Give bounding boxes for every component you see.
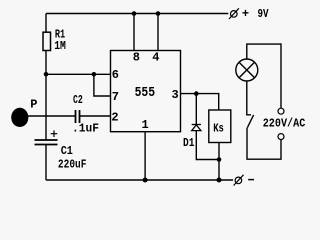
relay Ks box (209, 110, 231, 143)
svg-text:.1uF: .1uF (72, 122, 99, 136)
svg-text:220V/AC: 220V/AC (263, 116, 306, 130)
node dot pin1 rail (143, 178, 148, 183)
svg-text:1: 1 (142, 118, 149, 132)
svg-text:8: 8 (133, 50, 140, 64)
node dot Ks rail (217, 178, 222, 183)
node dot pin4 rail (156, 11, 161, 16)
wire left rail middle (45, 51, 47, 141)
svg-text:555: 555 (135, 86, 156, 101)
svg-text:7: 7 (112, 90, 119, 104)
AC source terminal bottom (278, 134, 284, 140)
svg-text:D1: D1 (183, 136, 194, 150)
C1 plus sign (51, 130, 58, 137)
wire left rail lower (45, 145, 47, 181)
wire D1 top (195, 94, 197, 125)
lamp top wire (247, 44, 281, 108)
lamp EL1 (236, 59, 258, 81)
wire D1 bottom (196, 131, 218, 160)
minus sign (248, 179, 254, 181)
wire pin3 (181, 94, 219, 110)
svg-text:1M: 1M (54, 39, 66, 53)
wire bottom rail (46, 179, 233, 181)
diode D1 zener (192, 125, 201, 131)
svg-text:9V: 9V (258, 7, 270, 21)
wire lamp to switch (247, 81, 251, 115)
node dot pin3 (194, 91, 199, 96)
wire pin8 to rail (133, 14, 135, 51)
svg-text:+: + (242, 7, 249, 21)
svg-text:2: 2 (111, 110, 118, 124)
node dot left rail pin6 (44, 72, 49, 77)
wire pin6 horizontal (46, 73, 111, 75)
svg-text:P: P (30, 98, 37, 112)
node dot pin6/7 jog (92, 72, 97, 77)
wire mic to C2 (27, 115, 76, 117)
microphone P (11, 108, 28, 127)
wire Ks bottom (218, 143, 220, 160)
terminal minus (234, 175, 244, 186)
wire pin1 to bottom rail (144, 132, 146, 180)
wire node to bottom rail (218, 160, 220, 181)
AC source terminal top (278, 108, 284, 114)
wire pin4 to rail (157, 14, 159, 51)
svg-text:C2: C2 (73, 93, 83, 107)
terminal +9V (229, 8, 239, 19)
wire left rail upper (45, 14, 47, 33)
svg-text:Ks: Ks (213, 121, 224, 135)
wire pin7 jog (94, 74, 111, 96)
node dot D1/Ks bottom (217, 157, 222, 162)
capacitor C2 (76, 110, 80, 123)
switch Ks contact blade (247, 115, 253, 128)
svg-text:220uF: 220uF (58, 158, 87, 172)
svg-text:6: 6 (112, 68, 119, 82)
svg-text:C1: C1 (61, 144, 73, 158)
op-amp U1 555 box (111, 51, 181, 132)
resistor R1 (43, 32, 51, 50)
wire switch to bottom loop (247, 128, 281, 160)
svg-text:4: 4 (152, 50, 159, 64)
node dot pin8 rail (132, 11, 137, 16)
wire top rail (46, 13, 228, 15)
capacitor C1 (35, 140, 58, 145)
wire C2 to pin2 (80, 115, 111, 117)
svg-text:3: 3 (172, 88, 179, 102)
